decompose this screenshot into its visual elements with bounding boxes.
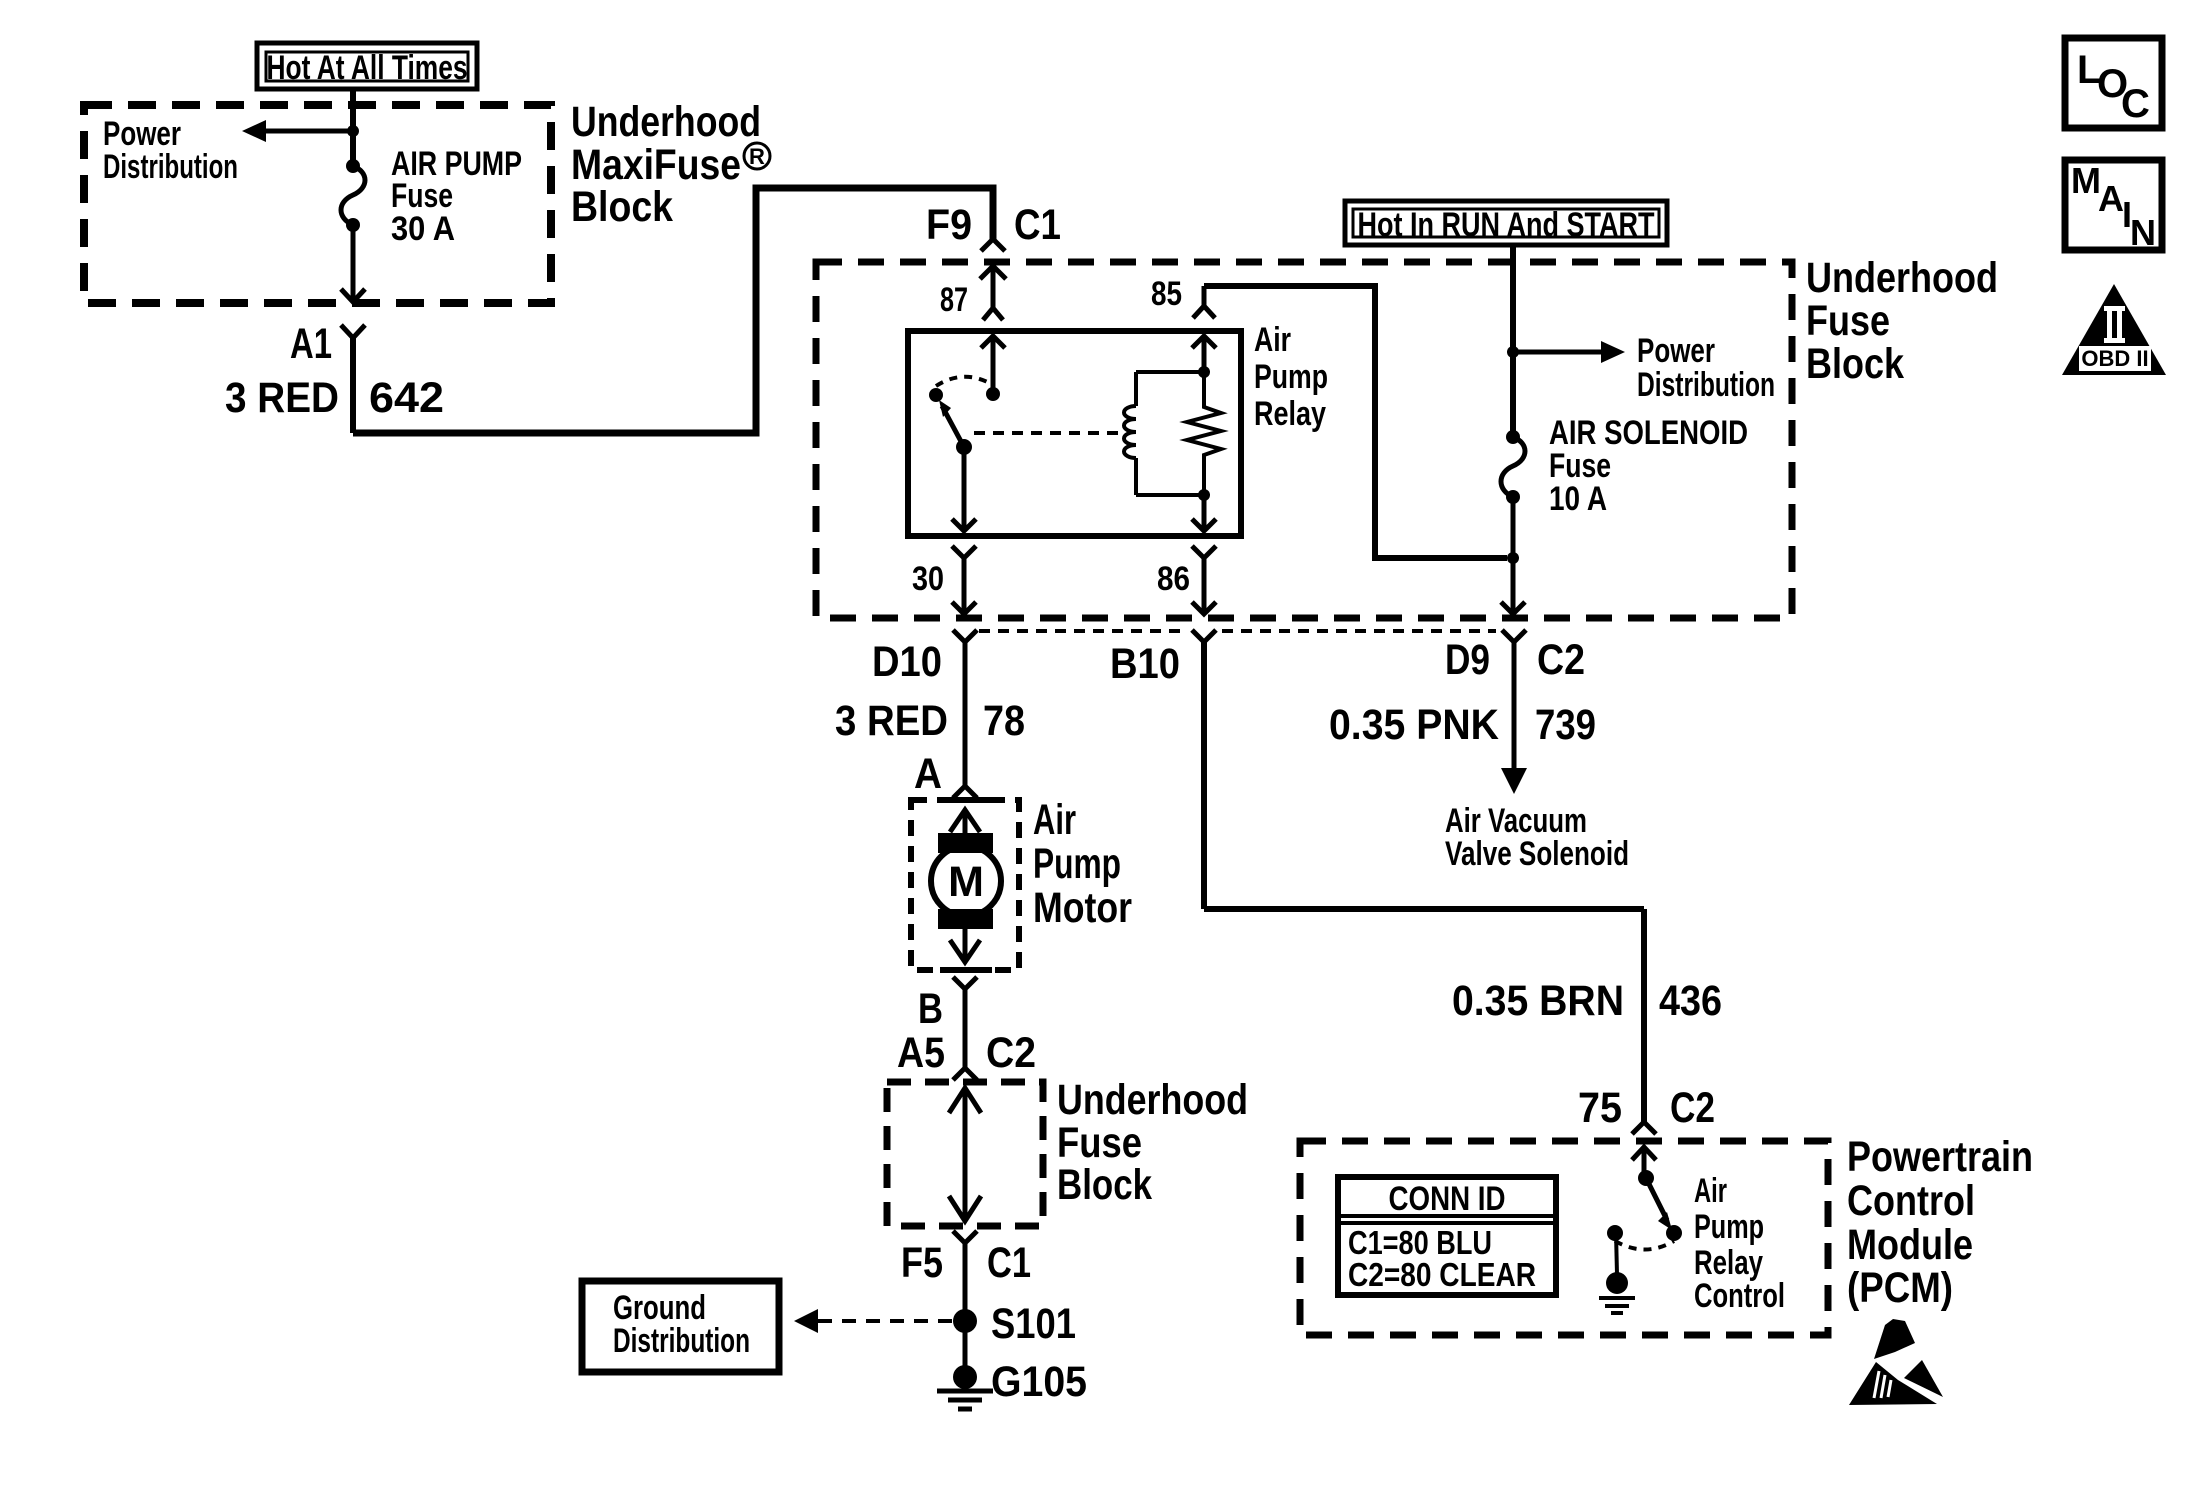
svg-text:(PCM): (PCM) xyxy=(1847,1264,1953,1312)
svg-text:Fuse: Fuse xyxy=(1057,1119,1142,1167)
svg-text:3 RED: 3 RED xyxy=(225,374,339,422)
svg-text:30: 30 xyxy=(912,560,944,598)
svg-text:Power: Power xyxy=(1637,332,1715,370)
svg-text:G105: G105 xyxy=(991,1358,1087,1406)
svg-text:Underhood: Underhood xyxy=(1806,254,1998,302)
svg-text:N: N xyxy=(2130,212,2156,253)
svg-text:A: A xyxy=(914,750,942,798)
svg-text:A1: A1 xyxy=(290,320,332,368)
svg-text:C1: C1 xyxy=(1014,201,1061,249)
svg-text:C2: C2 xyxy=(1537,636,1585,684)
svg-text:C: C xyxy=(2121,82,2150,126)
svg-text:Underhood: Underhood xyxy=(1057,1076,1248,1124)
svg-text:Valve Solenoid: Valve Solenoid xyxy=(1445,835,1629,873)
svg-text:C2: C2 xyxy=(1670,1084,1715,1132)
svg-text:Module: Module xyxy=(1847,1221,1973,1269)
svg-text:D9: D9 xyxy=(1445,636,1490,684)
svg-text:Hot In RUN And START: Hot In RUN And START xyxy=(1358,206,1655,244)
svg-text:Hot At All Times: Hot At All Times xyxy=(267,49,468,87)
svg-text:Underhood: Underhood xyxy=(571,98,761,146)
svg-text:F9: F9 xyxy=(926,201,972,249)
svg-text:M: M xyxy=(948,858,984,906)
svg-text:85: 85 xyxy=(1151,275,1182,313)
svg-text:Pump: Pump xyxy=(1694,1208,1764,1246)
svg-text:B: B xyxy=(918,985,943,1033)
svg-text:642: 642 xyxy=(369,374,444,422)
svg-text:Block: Block xyxy=(1806,340,1904,388)
svg-text:A: A xyxy=(2098,178,2124,219)
svg-text:Distribution: Distribution xyxy=(1637,366,1775,404)
svg-text:Air: Air xyxy=(1694,1172,1727,1210)
svg-text:Block: Block xyxy=(1057,1161,1152,1209)
svg-text:78: 78 xyxy=(983,697,1025,745)
svg-text:87: 87 xyxy=(940,281,968,319)
svg-text:436: 436 xyxy=(1659,977,1722,1025)
svg-text:Distribution: Distribution xyxy=(613,1322,750,1360)
svg-text:Powertrain: Powertrain xyxy=(1847,1133,2033,1181)
svg-text:OBD II: OBD II xyxy=(2081,346,2148,371)
svg-text:S101: S101 xyxy=(991,1300,1076,1348)
svg-text:A5: A5 xyxy=(897,1029,945,1077)
svg-text:CONN ID: CONN ID xyxy=(1389,1180,1506,1218)
svg-text:M: M xyxy=(2071,160,2101,201)
svg-text:3 RED: 3 RED xyxy=(835,697,948,745)
svg-text:Fuse: Fuse xyxy=(1806,297,1890,345)
svg-text:Control: Control xyxy=(1847,1177,1975,1225)
svg-text:Air: Air xyxy=(1033,796,1076,844)
svg-text:Control: Control xyxy=(1694,1277,1785,1315)
svg-text:Block: Block xyxy=(571,183,673,231)
svg-text:Distribution: Distribution xyxy=(103,148,238,186)
svg-text:F5: F5 xyxy=(901,1239,943,1287)
svg-text:C2=80 CLEAR: C2=80 CLEAR xyxy=(1348,1256,1536,1293)
svg-text:D10: D10 xyxy=(872,638,942,686)
svg-text:C2: C2 xyxy=(986,1029,1036,1077)
svg-text:10 A: 10 A xyxy=(1549,480,1607,518)
svg-text:0.35 BRN: 0.35 BRN xyxy=(1452,977,1624,1025)
svg-text:MaxiFuse: MaxiFuse xyxy=(571,141,741,189)
svg-text:Pump: Pump xyxy=(1033,840,1121,888)
svg-text:75: 75 xyxy=(1578,1084,1622,1132)
svg-text:Relay: Relay xyxy=(1254,395,1326,433)
svg-text:R: R xyxy=(749,144,765,169)
svg-text:Air: Air xyxy=(1254,321,1291,359)
svg-text:739: 739 xyxy=(1535,701,1596,749)
svg-text:C1: C1 xyxy=(987,1239,1031,1287)
svg-text:0.35 PNK: 0.35 PNK xyxy=(1329,701,1499,749)
svg-text:30 A: 30 A xyxy=(391,210,455,248)
svg-text:86: 86 xyxy=(1157,560,1190,598)
svg-text:B10: B10 xyxy=(1110,640,1180,688)
svg-text:Motor: Motor xyxy=(1033,884,1132,932)
svg-text:Pump: Pump xyxy=(1254,358,1328,396)
